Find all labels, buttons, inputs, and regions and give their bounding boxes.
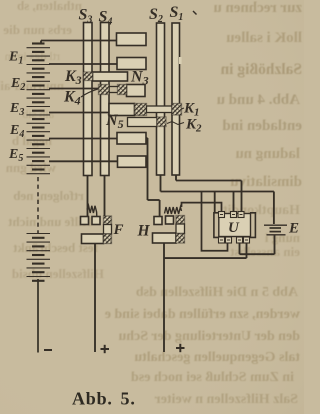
svg-text:H: H (137, 223, 151, 240)
svg-text:Abb. 5.: Abb. 5. (72, 389, 136, 409)
svg-text:zur rechnen u: zur rechnen u (213, 0, 302, 16)
svg-text:nthalten, sb: nthalten, sb (17, 0, 82, 13)
svg-text:ladung nu: ladung nu (235, 146, 300, 162)
svg-text:entladen ind: entladen ind (222, 118, 302, 134)
svg-text:Abb 5 n Die Hilfszellen dsb: Abb 5 n Die Hilfszellen dsb (136, 285, 298, 300)
svg-text:wird gnn: wird gnn (5, 160, 56, 175)
svg-text:werden, szn erfüllen dabei sin: werden, szn erfüllen dabei sind e (105, 307, 300, 322)
svg-text:Abb. 4 und u: Abb. 4 und u (217, 92, 300, 108)
svg-text:E: E (288, 221, 299, 237)
svg-text:tals Gegenquellen geschaltu: tals Gegenquellen geschaltu (134, 350, 300, 365)
svg-text:Hilfszellen ubsid: Hilfszellen ubsid (11, 266, 104, 281)
svg-text:F: F (113, 222, 124, 238)
svg-text:erbs nun die: erbs nun die (3, 22, 72, 37)
svg-text:Hilfe und nicht: Hilfe und nicht (8, 214, 92, 229)
svg-text:lloK i salleu: lloK i salleu (226, 30, 302, 46)
svg-text:rtfolgen, neb: rtfolgen, neb (13, 188, 84, 203)
svg-text:den der Unterteilung der Schu: den der Unterteilung der Schu (118, 329, 300, 344)
svg-text:Salzhößig in: Salzhößig in (220, 61, 302, 78)
svg-text:Salz Hilfszellen n weiter: Salz Hilfszellen n weiter (155, 392, 298, 407)
svg-text:U: U (228, 220, 240, 236)
svg-text:in Zum Schluß sei noch esd: in Zum Schluß sei noch esd (131, 370, 294, 385)
